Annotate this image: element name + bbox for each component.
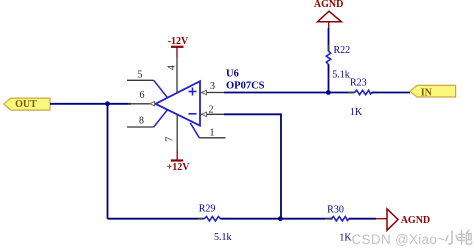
op-amp U6 minus input marker xyxy=(189,113,197,115)
U6 pin 1 lead xyxy=(190,123,199,138)
svg-text:7: 7 xyxy=(164,137,175,142)
wire U6 pin2 right and down xyxy=(224,114,281,218)
resistor R30 xyxy=(325,217,356,221)
wire R22 to junction xyxy=(328,64,330,92)
resistor R22 xyxy=(326,45,330,71)
svg-text:3: 3 xyxy=(210,81,215,92)
U6 pin 3 lead xyxy=(200,92,224,94)
power port AGND right stem xyxy=(376,218,387,220)
svg-text:AGND: AGND xyxy=(401,215,430,226)
wire node A down to bottom rail xyxy=(107,104,109,219)
svg-text:+12V: +12V xyxy=(167,162,191,173)
power port +12V xyxy=(167,150,191,173)
wire R23 to IN port xyxy=(372,92,410,94)
svg-text:1K: 1K xyxy=(339,233,352,244)
watermark CJK glyph yan xyxy=(459,230,472,244)
svg-text:8: 8 xyxy=(139,116,144,127)
svg-text:R29: R29 xyxy=(199,204,216,215)
svg-text:2: 2 xyxy=(209,105,214,116)
svg-text:OUT: OUT xyxy=(15,99,37,110)
op-amp U6 triangle xyxy=(156,81,201,125)
U6 pin 6 lead xyxy=(128,103,150,105)
svg-text:R30: R30 xyxy=(327,204,344,215)
watermark CJK glyph xiao xyxy=(446,231,459,244)
svg-text:1K: 1K xyxy=(350,107,363,118)
junction node B xyxy=(326,90,331,95)
U6 pin 4 lead xyxy=(176,57,178,93)
svg-text:5: 5 xyxy=(138,70,143,81)
resistor R29 xyxy=(198,217,227,221)
op-amp U6 plus input marker xyxy=(189,88,197,96)
bottom rail wire right xyxy=(349,218,376,220)
wire AGND to R22 xyxy=(328,28,330,51)
svg-text:AGND: AGND xyxy=(314,0,343,10)
U6 pin 2 input arrow xyxy=(202,112,207,117)
bottom rail wire middle xyxy=(220,218,332,220)
U6 pin 2 lead xyxy=(200,113,224,115)
resistor R23 xyxy=(348,90,378,94)
junction node C xyxy=(278,216,283,221)
svg-text:CSDN @Xiao~: CSDN @Xiao~ xyxy=(352,232,446,247)
svg-text:U6: U6 xyxy=(226,69,239,80)
svg-text:6: 6 xyxy=(140,90,145,101)
junction node A xyxy=(105,101,110,106)
svg-text:5.1k: 5.1k xyxy=(332,70,350,81)
power port -12V xyxy=(168,36,189,57)
svg-text:R22: R22 xyxy=(334,45,351,56)
svg-text:5.1k: 5.1k xyxy=(214,232,232,243)
U6 pin 8 lead xyxy=(127,126,154,128)
svg-text:R23: R23 xyxy=(350,78,367,89)
svg-text:OP07CS: OP07CS xyxy=(226,80,265,91)
svg-text:-12V: -12V xyxy=(168,36,189,47)
bottom rail wire left xyxy=(108,218,205,220)
svg-text:IN: IN xyxy=(421,87,433,98)
port OUT xyxy=(4,98,50,110)
svg-text:1: 1 xyxy=(210,128,215,139)
U6 pin 7 lead xyxy=(176,114,178,150)
power port AGND top xyxy=(314,0,343,28)
wire U6 pin3 to R23 xyxy=(224,92,355,94)
svg-text:4: 4 xyxy=(166,65,177,70)
U6 pin 3 input arrow xyxy=(202,90,207,95)
power port AGND right xyxy=(387,209,430,230)
U6 pin 5 lead xyxy=(127,79,154,81)
port IN xyxy=(410,85,456,98)
wire OUT to U6 pin 6 xyxy=(50,103,131,105)
U6 pin 6 output arrow xyxy=(150,101,155,106)
